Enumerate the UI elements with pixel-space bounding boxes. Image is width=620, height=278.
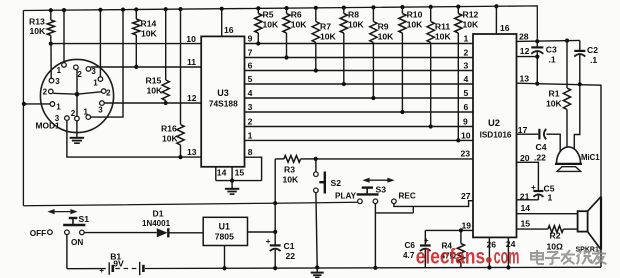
svg-text:R3: R3 (284, 165, 295, 175)
wire speaker to bottom rail (600, 250, 602, 268)
svg-text:1: 1 (93, 78, 98, 87)
svg-text:22: 22 (286, 251, 296, 261)
U3 pin numbers (186, 25, 253, 178)
wire U1 ground lead (222, 246, 226, 271)
svg-text:.22: .22 (534, 153, 546, 163)
capacitor C4 (534, 129, 547, 163)
ground below MOD1 (70, 121, 84, 143)
svg-text:ON: ON (71, 238, 83, 247)
svg-text:elecfans: elecfans (416, 246, 485, 269)
direction arrow above S3 (362, 178, 394, 183)
wire S2 to bottom rail (316, 193, 317, 268)
svg-text:17: 17 (518, 125, 528, 135)
svg-text:1: 1 (57, 66, 62, 75)
svg-text:OFF: OFF (30, 229, 46, 238)
svg-text:3: 3 (98, 106, 103, 115)
svg-text:+: + (531, 183, 536, 192)
svg-text:1: 1 (84, 107, 89, 116)
junction dots on top rail (49, 4, 499, 12)
svg-text:10K: 10K (348, 20, 365, 30)
svg-text:12: 12 (187, 93, 197, 103)
svg-text:R6: R6 (291, 10, 302, 20)
svg-text:10Ω: 10Ω (547, 242, 564, 252)
svg-text:4.7: 4.7 (403, 251, 415, 260)
U2 pin numbers right and bottom (487, 32, 531, 250)
svg-text:9: 9 (248, 34, 253, 44)
svg-text:R7: R7 (320, 22, 331, 32)
regulator U1 7805 box (203, 217, 247, 245)
svg-text:R16: R16 (161, 124, 177, 134)
svg-text:2: 2 (71, 109, 76, 118)
wire +5V riser to R3 and U1 output (273, 159, 277, 245)
pushbutton S2 (314, 159, 342, 194)
svg-text:R9: R9 (378, 22, 389, 32)
svg-text:14: 14 (521, 203, 531, 213)
MOD1 contact circles (49, 63, 106, 121)
wire +5V feed line to PLAY contact (23, 202, 357, 206)
svg-text:8: 8 (248, 147, 253, 157)
svg-text:+: + (266, 237, 271, 246)
resistor R10 (399, 7, 423, 112)
svg-text:15: 15 (235, 168, 245, 178)
wire U2 pin 23 line from R3 (316, 158, 473, 160)
wire U2 pin 14 to speaker (517, 213, 578, 215)
wire U2 bottom pins 26 24 to rail (489, 238, 508, 268)
wire bus line U3 to U2 pin 4 (245, 82, 474, 86)
wire bus line U3 to U2 pin 5 (245, 96, 474, 100)
wire bus line U3 to U2 pin 3 (245, 68, 474, 72)
resistor R8 (340, 8, 364, 84)
svg-text:2: 2 (43, 88, 48, 97)
svg-text:com: com (494, 244, 520, 268)
wire MOD1 upper-left contact to R13 node (50, 44, 52, 79)
wire C4 to microphone (546, 134, 560, 151)
wire U3 pin 13 line (67, 120, 201, 157)
svg-text:9V: 9V (113, 259, 124, 269)
U3 pins 14 15 and pin 8 return (216, 157, 262, 183)
svg-text:1: 1 (464, 34, 469, 44)
svg-text:R15: R15 (146, 76, 162, 86)
wire S1 to diode D1 (84, 232, 157, 234)
svg-text:5: 5 (464, 88, 469, 98)
svg-text:10K: 10K (291, 20, 308, 30)
svg-text:+: + (99, 266, 104, 275)
capacitor C1 (266, 237, 295, 270)
svg-text:U3: U3 (217, 88, 229, 98)
svg-text:C4: C4 (536, 142, 547, 152)
U2 pin numbers left and top (461, 23, 510, 230)
ground on bottom rail (311, 268, 324, 278)
wire S3 branch (375, 206, 413, 213)
svg-text:28: 28 (519, 32, 529, 42)
svg-text:7: 7 (248, 48, 253, 58)
svg-text:S1: S1 (79, 214, 90, 224)
svg-text:13: 13 (187, 147, 197, 157)
svg-text:12: 12 (520, 46, 530, 56)
svg-text:6: 6 (248, 61, 253, 71)
wire bus line U3 to U2 pin 10 (245, 138, 474, 142)
resistor R4 (441, 230, 465, 267)
svg-text:REC: REC (399, 192, 416, 201)
wire U2 pin 20 to C5 (517, 162, 539, 190)
svg-text:.1: .1 (549, 55, 556, 65)
MOD1 wiper arms and hub (53, 70, 101, 116)
top rail (+V bus) (23, 6, 537, 41)
svg-text:19: 19 (462, 220, 472, 230)
svg-text:C6: C6 (405, 241, 416, 250)
svg-text:1: 1 (548, 193, 553, 203)
resistor R3 (275, 156, 318, 185)
svg-text:10K: 10K (147, 86, 164, 96)
svg-text:D1: D1 (153, 209, 164, 219)
svg-text:3: 3 (55, 114, 60, 123)
svg-text:16: 16 (224, 25, 234, 35)
svg-text:6: 6 (464, 102, 469, 112)
microphone MIC1 (555, 147, 600, 172)
svg-text:1N4001: 1N4001 (142, 219, 171, 228)
svg-text:16: 16 (500, 23, 510, 33)
svg-text:10K: 10K (283, 175, 300, 185)
resistor R1 (546, 41, 571, 148)
diode D1 1N4001 (142, 209, 203, 238)
svg-text:C3: C3 (546, 45, 557, 55)
svg-text:4: 4 (248, 88, 253, 98)
svg-text:R2: R2 (550, 231, 561, 241)
svg-text:14: 14 (217, 168, 227, 178)
slide switch S1 (30, 214, 89, 247)
wire MOD1 contact to top rail (left) (63, 10, 65, 62)
svg-text:5: 5 (248, 74, 253, 84)
svg-text:13: 13 (520, 73, 530, 83)
resistor R11 (427, 7, 451, 127)
watermark elecfans.com (416, 244, 520, 269)
wire U2 pin 12 to C3 (517, 56, 538, 58)
svg-text:3: 3 (91, 67, 96, 76)
wire MOD1 left contact to left riser (22, 102, 50, 106)
wire U3 pin 10 line (51, 43, 201, 45)
svg-text:9: 9 (463, 117, 468, 127)
resistor R9 (370, 7, 394, 98)
wire MOD1 lower-right contact to top rail (91, 10, 123, 117)
svg-text:10K: 10K (546, 99, 563, 109)
svg-text:11: 11 (187, 57, 196, 67)
svg-text:U1: U1 (219, 221, 230, 231)
svg-text:10K: 10K (320, 32, 337, 42)
speaker SPKR1 (576, 197, 602, 254)
wire S3 common to bottom rail (373, 204, 377, 270)
svg-text:2: 2 (77, 70, 82, 79)
svg-text:27: 27 (461, 191, 471, 201)
wire C2 node down to microphone (574, 84, 580, 149)
svg-text:PLAY: PLAY (335, 192, 357, 201)
slide switch S3 with PLAY REC contacts (335, 185, 416, 204)
svg-text:MiC1: MiC1 (581, 153, 600, 162)
svg-text:R11: R11 (435, 22, 451, 32)
wire MOD1 contact to top rail (right) (99, 10, 101, 77)
resistor R7 (312, 8, 336, 71)
svg-text:R13: R13 (29, 17, 45, 27)
svg-text:3: 3 (464, 61, 469, 71)
battery B1 9V (67, 251, 143, 275)
svg-text:10K: 10K (378, 32, 395, 42)
svg-text:R5: R5 (263, 10, 274, 20)
wire bus line U3 to U2 pin 9 (245, 124, 474, 128)
svg-text:3: 3 (55, 77, 60, 86)
svg-text:23: 23 (461, 149, 471, 159)
svg-text:4: 4 (464, 74, 469, 84)
wire U3 pin 11 line (91, 66, 202, 68)
wire U1 output to +5V node (248, 231, 276, 233)
wire U2 pin 19 node (425, 228, 473, 232)
svg-text:R8: R8 (348, 10, 359, 20)
wire bus line U3 to U2 pin 6 (245, 110, 474, 114)
svg-text:10: 10 (461, 130, 471, 140)
rotary switch MOD1 body (36, 59, 114, 132)
svg-text:2: 2 (464, 48, 469, 58)
svg-text:10K: 10K (263, 20, 280, 30)
bottom rail (ground bus) (145, 265, 601, 269)
capacitor C3 (531, 41, 557, 85)
resistor R14 (133, 9, 158, 69)
wire U2 pin 13 line (517, 83, 602, 196)
svg-text:U2: U2 (488, 117, 500, 128)
svg-text:R10: R10 (407, 10, 423, 20)
svg-text:2: 2 (248, 117, 253, 127)
svg-text:R12: R12 (463, 10, 479, 20)
capacitor C5 (531, 183, 555, 203)
wire U2 pin 16 to top rail (495, 6, 497, 34)
svg-text:20: 20 (520, 153, 530, 163)
resistor R5 (255, 8, 279, 43)
wire U2 pin 28 line (517, 39, 580, 44)
svg-text:ISD1016: ISD1016 (480, 131, 512, 140)
svg-text:15: 15 (521, 219, 531, 229)
svg-text:10K: 10K (141, 29, 158, 39)
svg-text:R14: R14 (141, 19, 157, 29)
wire C5 to U2 pin 21 (517, 199, 539, 201)
resistor R2 (547, 226, 578, 252)
watermark chinese characters (531, 250, 607, 264)
wire U2 pin 15 to R2 (517, 228, 549, 230)
svg-text:10: 10 (186, 34, 196, 44)
svg-text:10K: 10K (463, 20, 480, 30)
wire S1 to battery (66, 235, 68, 269)
op-amp U3 74S188 box (201, 36, 244, 166)
resistor R16 (161, 9, 184, 159)
svg-text:C1: C1 (284, 241, 295, 251)
wire U2 pin 17 to C4 (517, 133, 539, 135)
capacitor C6 (403, 230, 431, 267)
svg-text:3: 3 (248, 102, 253, 112)
wire left +V riser (22, 11, 24, 206)
capacitor C2 (574, 40, 598, 86)
svg-text:1: 1 (248, 130, 253, 140)
svg-text:10K: 10K (407, 20, 424, 30)
svg-text:S3: S3 (376, 185, 387, 195)
resistor R6 (283, 8, 307, 57)
svg-text:1: 1 (56, 102, 61, 111)
resistor R15 (146, 9, 170, 105)
svg-text:7805: 7805 (215, 232, 234, 242)
svg-text:C2: C2 (587, 45, 598, 55)
svg-text:+: + (424, 236, 429, 245)
svg-text:10K: 10K (162, 134, 179, 144)
U2 ISD1016 box (473, 34, 517, 237)
svg-text:2: 2 (106, 89, 111, 98)
resistor R12 (455, 7, 479, 141)
wire U3 pin 12 line (104, 102, 201, 104)
wire REC contact to U2 pin 27 (394, 201, 473, 207)
svg-text:10K: 10K (435, 32, 452, 42)
ground below U3 (225, 181, 239, 195)
svg-text:74S188: 74S188 (209, 99, 238, 109)
resistor R13 (29, 10, 54, 45)
wire bus line U3 to U2 pin 1 (245, 41, 474, 45)
svg-text:10K: 10K (30, 26, 47, 36)
svg-text:.1: .1 (590, 55, 597, 65)
direction arrow above S1 (47, 209, 77, 214)
wire bus line U3 to U2 pin 2 (245, 55, 474, 59)
svg-text:R1: R1 (549, 89, 560, 99)
MOD1 position number labels (43, 66, 112, 123)
wire U3 pin 16 to top rail (221, 9, 223, 37)
svg-text:S2: S2 (331, 178, 342, 188)
